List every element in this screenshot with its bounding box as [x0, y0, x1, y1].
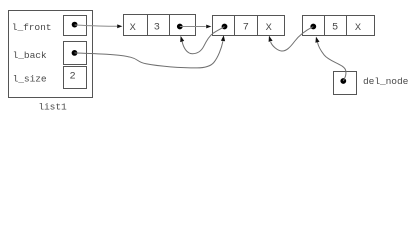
svg-text:l_back: l_back — [13, 50, 47, 61]
wire node3 prev to node2 — [271, 27, 314, 51]
del_node box — [334, 72, 357, 95]
dot del_node — [340, 78, 346, 84]
node2 prev dot — [222, 24, 228, 30]
svg-text:X: X — [355, 22, 361, 34]
wire del_node to node3 — [318, 42, 346, 81]
svg-text:X: X — [130, 22, 136, 34]
arrowhead node2 prev to node1 — [180, 36, 184, 42]
arrowhead del_node to node3 — [315, 37, 319, 43]
dot l_back — [72, 50, 78, 56]
svg-text:l_size: l_size — [13, 73, 47, 84]
svg-text:list1: list1 — [38, 102, 67, 113]
box l_front pointer cell — [64, 16, 87, 36]
wire l_front to node1 — [75, 25, 118, 26]
box l_size value cell — [64, 67, 87, 89]
svg-text:2: 2 — [70, 71, 76, 83]
svg-text:5: 5 — [332, 21, 338, 33]
arrowhead node3 prev to node2 — [269, 36, 273, 42]
node2 box — [213, 16, 285, 36]
svg-text:del_node: del_node — [363, 76, 409, 87]
arrowhead node1 to node2 — [206, 25, 211, 29]
wire l_back to node2 — [75, 41, 223, 68]
svg-text:l_front: l_front — [12, 22, 52, 33]
node3 divider 2 — [346, 16, 348, 36]
arrowhead l_back to node2 — [221, 35, 225, 41]
box list1 outer — [9, 11, 93, 98]
node1 divider 1 — [147, 15, 149, 36]
node2 divider 1 — [234, 16, 236, 36]
svg-text:3: 3 — [154, 21, 160, 33]
node1 divider 2 — [169, 15, 171, 36]
node3 box — [303, 16, 375, 36]
svg-text:X: X — [266, 22, 272, 34]
wire node2 prev to node1 — [182, 27, 224, 54]
node2 divider 2 — [257, 16, 259, 36]
node1 next dot — [177, 24, 183, 30]
node3 divider 1 — [324, 16, 326, 36]
wire node1 next to node2 — [180, 26, 206, 28]
dot l_front — [72, 22, 78, 28]
arrowhead l_front to node1 — [117, 24, 122, 28]
svg-text:7: 7 — [243, 21, 249, 33]
node3 prev dot — [310, 24, 316, 30]
box l_back pointer cell — [64, 42, 87, 65]
node1 box — [124, 15, 196, 36]
